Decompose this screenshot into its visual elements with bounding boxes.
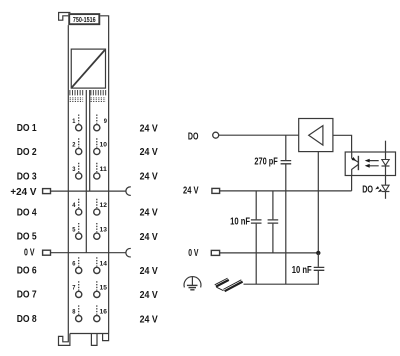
- capacitor C2 10nF plates: [251, 220, 262, 223]
- capacitor C4 10nF plates: [314, 267, 325, 270]
- module 750-1516 top latch: [59, 13, 71, 21]
- module bottom-left foot: [59, 334, 70, 346]
- terminal 14 dashed lead: [96, 257, 98, 266]
- terminal 8 clamp circle: [76, 316, 82, 322]
- svg-text:15: 15: [100, 285, 108, 292]
- svg-text:0 V: 0 V: [24, 247, 35, 259]
- junction dot 0V: [316, 251, 320, 255]
- earth ground symbol: [184, 276, 201, 289]
- module bottom right notch: [103, 334, 109, 341]
- earth wire: [244, 283, 319, 285]
- terminal 9 dashed lead: [96, 115, 98, 124]
- driver U1 triangle: [309, 126, 323, 146]
- svg-text:DO: DO: [362, 183, 373, 195]
- svg-text:24 V: 24 V: [183, 185, 199, 197]
- svg-text:24 V: 24 V: [140, 313, 158, 325]
- internal 24V rail: [89, 90, 91, 191]
- terminal 6 clamp circle: [76, 267, 82, 273]
- svg-text:10 nF: 10 nF: [230, 216, 250, 228]
- 0V jumper contact arc: [126, 248, 131, 257]
- 24V terminal tab: [212, 188, 220, 193]
- status LED diode: [382, 185, 390, 191]
- terminal 9 clamp circle: [94, 125, 100, 131]
- svg-text:DO 5: DO 5: [17, 231, 37, 243]
- terminal 7 clamp circle: [76, 291, 82, 297]
- terminal 3 dashed lead: [78, 163, 80, 172]
- svg-text:750-1516: 750-1516: [73, 15, 96, 24]
- status LED emission arrows: [374, 186, 382, 193]
- optocoupler phototransistor: [352, 152, 359, 176]
- svg-text:24 V: 24 V: [140, 265, 158, 277]
- 0V terminal tab: [211, 250, 219, 255]
- 24V wire: [220, 190, 352, 192]
- svg-text:DO 7: DO 7: [17, 289, 37, 301]
- svg-text:4: 4: [72, 202, 75, 209]
- terminal 1 clamp circle: [76, 125, 82, 131]
- terminal 2 dashed lead: [78, 138, 80, 147]
- terminal 3 clamp circle: [76, 173, 82, 179]
- terminal 11 clamp circle: [94, 173, 100, 179]
- capacitor C1 270pF lead: [285, 135, 287, 284]
- capacitor C1 270pF plates: [281, 161, 292, 164]
- svg-text:DO 3: DO 3: [17, 170, 37, 182]
- terminal 1 dashed lead: [78, 115, 80, 124]
- terminal 10 clamp circle: [94, 148, 100, 154]
- 0V wire: [51, 252, 126, 254]
- terminal 4 clamp circle: [76, 209, 82, 215]
- capacitor C3 10nF plates: [268, 220, 279, 223]
- svg-text:9: 9: [104, 118, 107, 125]
- svg-text:13: 13: [100, 226, 108, 233]
- electronics diagonal: [72, 50, 105, 87]
- wire driver to optocoupler: [333, 135, 352, 152]
- +24V wire: [51, 190, 126, 192]
- terminal 11 dashed lead: [96, 163, 98, 172]
- svg-text:0 V: 0 V: [188, 247, 198, 259]
- svg-text:DO 8: DO 8: [17, 313, 37, 325]
- terminal 16 dashed lead: [96, 305, 98, 314]
- svg-text:DO 1: DO 1: [17, 122, 37, 134]
- capacitor C4 10nF leads: [317, 253, 319, 284]
- terminal 12 dashed lead: [96, 199, 98, 208]
- electronics box: [71, 49, 105, 88]
- terminal 8 dashed lead: [78, 305, 80, 314]
- svg-text:270 pF: 270 pF: [254, 155, 278, 167]
- 0V terminal tab: [43, 250, 51, 255]
- svg-text:5: 5: [72, 226, 75, 233]
- terminal 7 dashed lead: [78, 281, 80, 290]
- terminal 2 clamp circle: [76, 148, 82, 154]
- svg-text:16: 16: [100, 309, 108, 316]
- module bottom edge: [70, 333, 109, 335]
- DO wire: [219, 134, 299, 136]
- svg-text:3: 3: [72, 166, 75, 173]
- terminal 14 clamp circle: [94, 267, 100, 273]
- svg-text:2: 2: [72, 142, 75, 149]
- svg-text:24 V: 24 V: [140, 207, 158, 219]
- terminal 4 dashed lead: [78, 199, 80, 208]
- driver U1 box: [299, 119, 333, 152]
- DIN rail contact symbol: [215, 278, 243, 291]
- svg-text:DO 4: DO 4: [17, 206, 37, 218]
- svg-text:24 V: 24 V: [140, 289, 158, 301]
- svg-text:10: 10: [100, 142, 108, 149]
- optocoupler emitter wire: [351, 176, 353, 191]
- optocoupler LED: [382, 141, 390, 199]
- capacitor C2 10nF leads: [255, 191, 257, 284]
- module left edge: [67, 25, 69, 333]
- connector dot rows: [70, 98, 106, 102]
- internal 0V rail: [85, 90, 87, 253]
- svg-text:10 nF: 10 nF: [292, 264, 312, 276]
- terminal 5 dashed lead: [78, 223, 80, 232]
- wire driver to 0V junction: [317, 152, 319, 253]
- +24V jumper contact arc: [126, 187, 131, 196]
- module label box: [69, 14, 99, 24]
- 0V wire: [220, 252, 319, 254]
- svg-text:6: 6: [72, 261, 75, 268]
- terminal 10 dashed lead: [96, 138, 98, 147]
- svg-text:1: 1: [72, 118, 75, 125]
- connector comb teeth: [70, 90, 106, 95]
- svg-text:+24 V: +24 V: [10, 186, 36, 198]
- terminal 6 dashed lead: [78, 257, 80, 266]
- terminal 15 clamp circle: [94, 291, 100, 297]
- module bottom middle leg: [91, 334, 97, 346]
- terminal 12 clamp circle: [94, 209, 100, 215]
- terminal 13 dashed lead: [96, 223, 98, 232]
- svg-text:DO 6: DO 6: [17, 265, 37, 277]
- optocoupler light arrows: [365, 159, 379, 168]
- module right edge: [100, 16, 108, 334]
- svg-text:24 V: 24 V: [140, 171, 158, 183]
- svg-text:12: 12: [100, 202, 108, 209]
- svg-text:DO 2: DO 2: [17, 146, 37, 158]
- svg-text:11: 11: [100, 166, 108, 173]
- terminal 15 dashed lead: [96, 281, 98, 290]
- svg-text:24 V: 24 V: [140, 231, 158, 243]
- terminal 13 clamp circle: [94, 233, 100, 239]
- svg-text:DO: DO: [188, 131, 199, 143]
- svg-text:8: 8: [72, 309, 75, 316]
- terminal 16 clamp circle: [94, 316, 100, 322]
- svg-text:24 V: 24 V: [140, 122, 158, 134]
- svg-text:24 V: 24 V: [140, 146, 158, 158]
- optocoupler U2 box: [345, 152, 395, 176]
- DO input terminal circle: [213, 132, 219, 138]
- +24V terminal tab: [43, 189, 51, 194]
- capacitor C3 10nF leads: [272, 191, 274, 253]
- svg-text:7: 7: [72, 285, 75, 292]
- svg-text:14: 14: [100, 261, 108, 268]
- terminal 5 clamp circle: [76, 233, 82, 239]
